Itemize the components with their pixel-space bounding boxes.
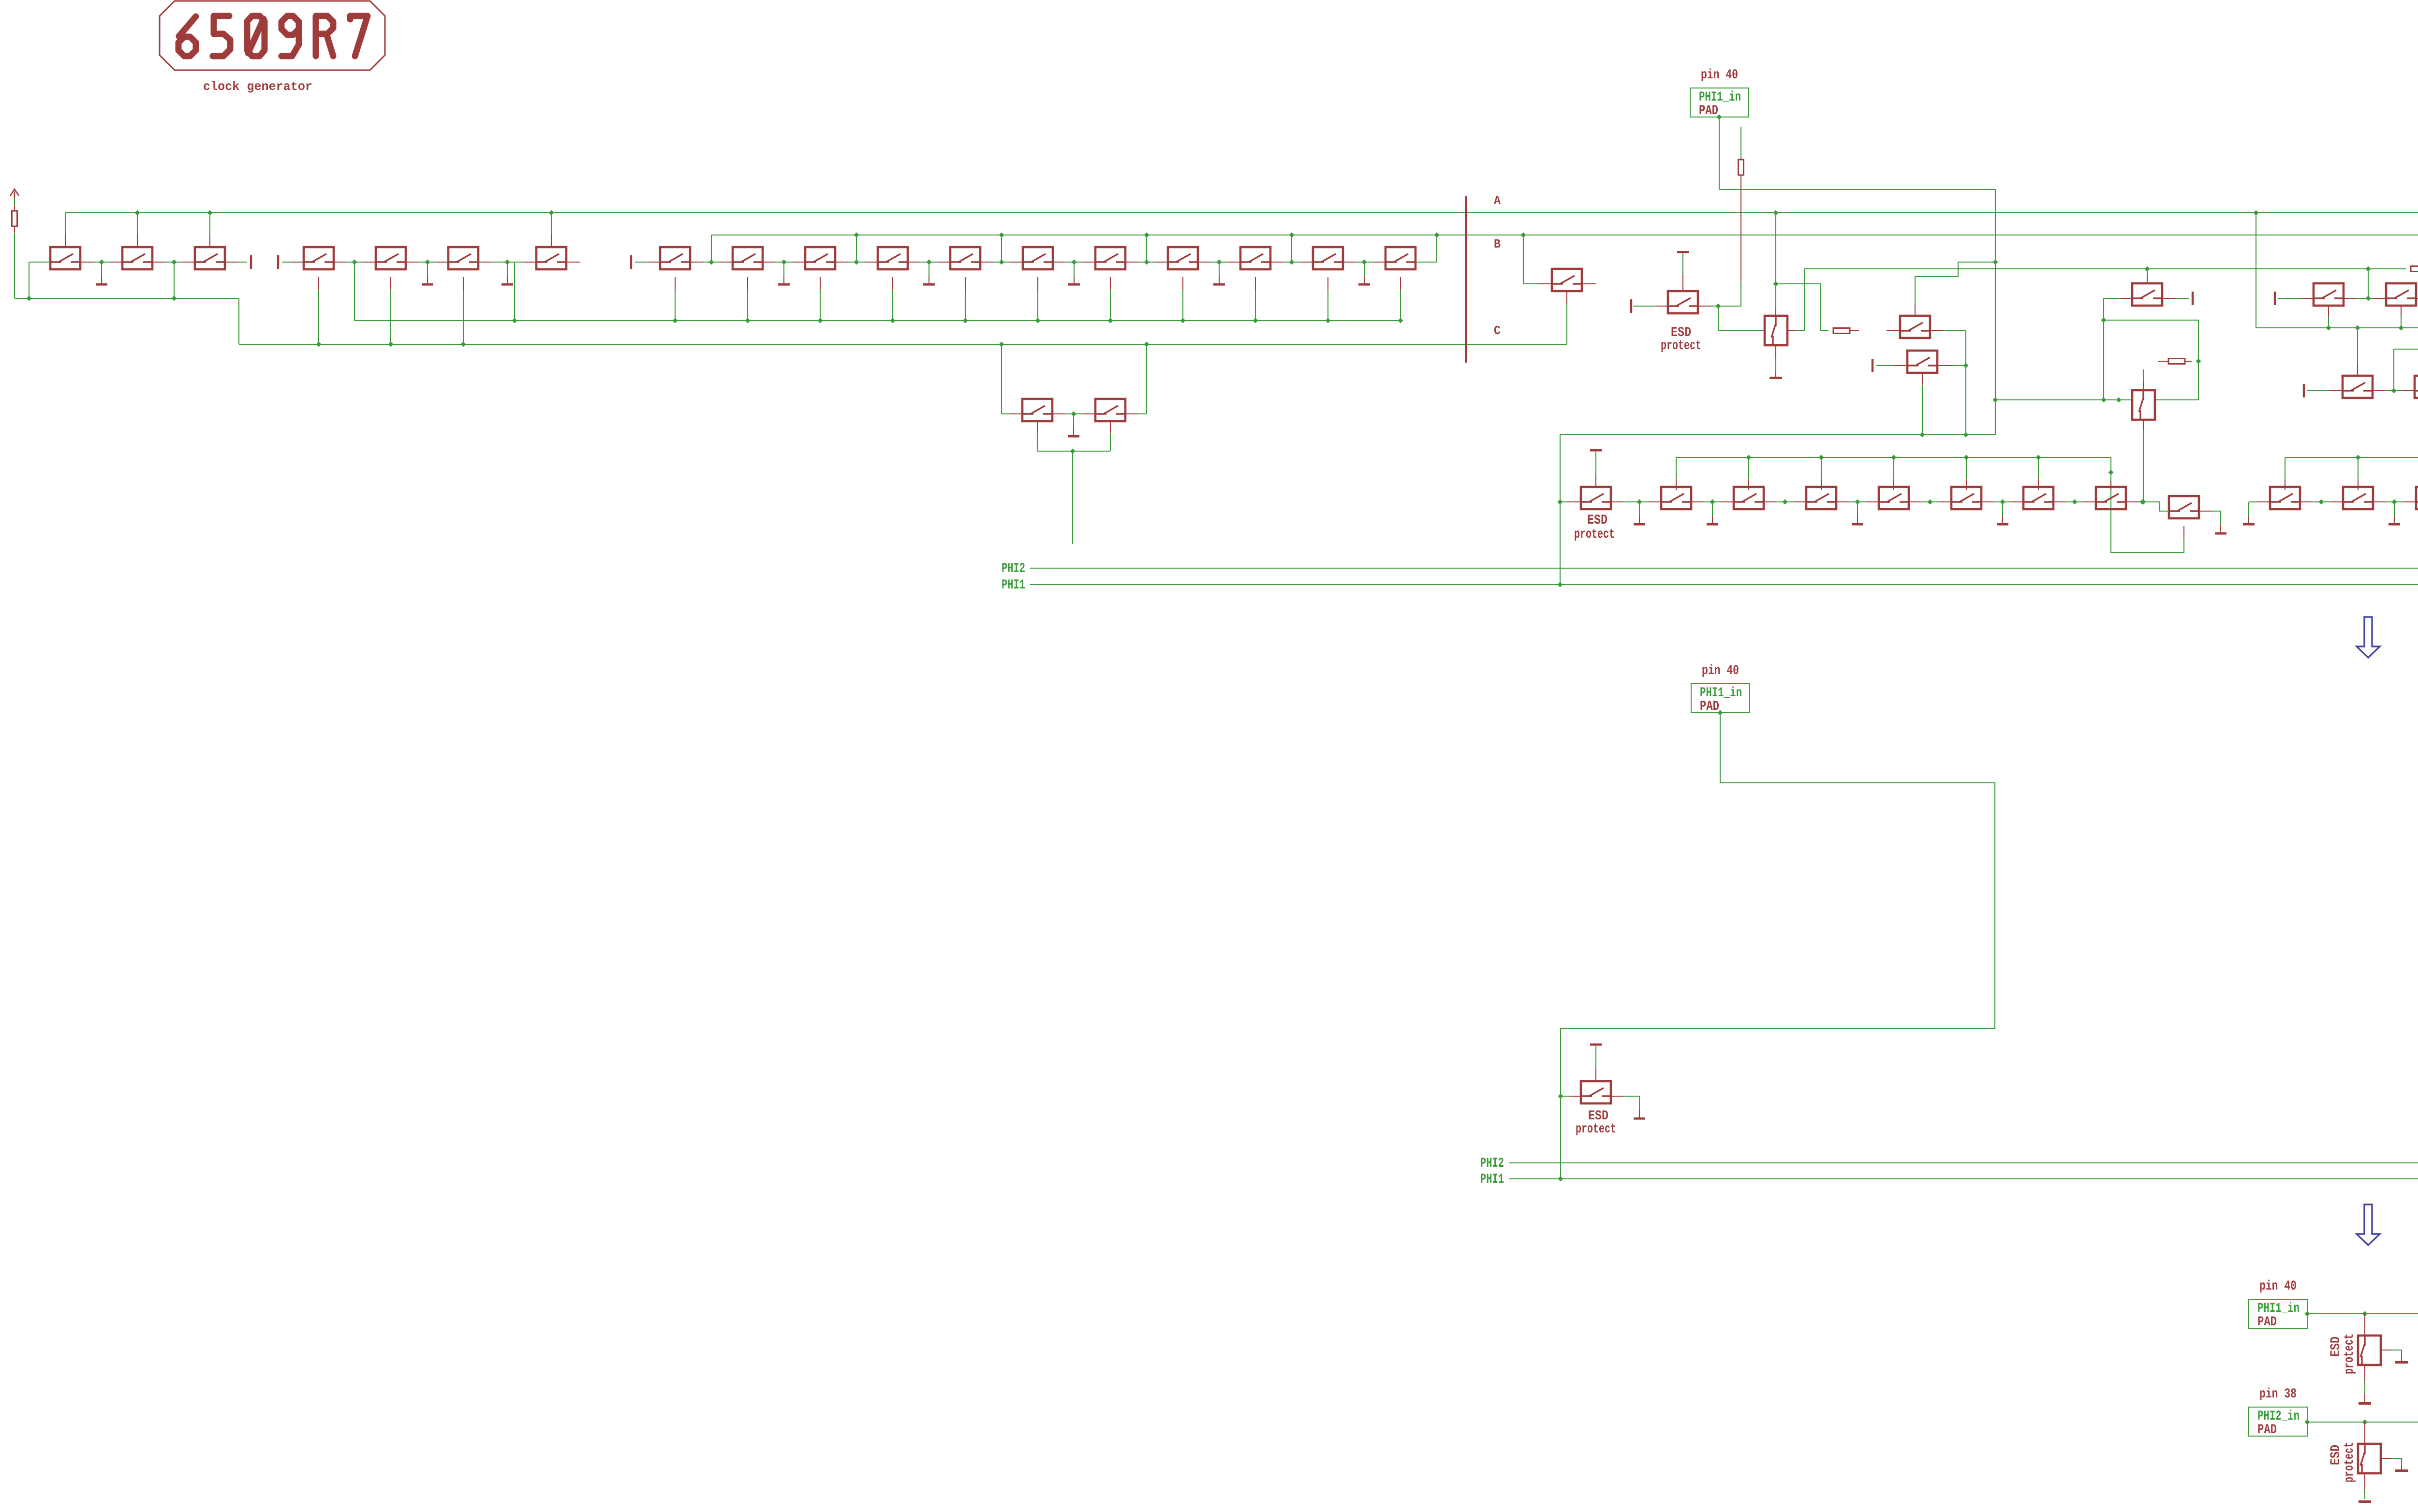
svg-text:PHI1_in: PHI1_in — [2257, 1301, 2300, 1316]
svg-text:pin 38: pin 38 — [2259, 1387, 2297, 1402]
svg-text:PAD: PAD — [2257, 1423, 2277, 1438]
svg-text:PAD: PAD — [2257, 1315, 2277, 1330]
svg-text:protect: protect — [1661, 338, 1701, 353]
svg-text:pin 40: pin 40 — [2259, 1279, 2297, 1294]
svg-text:PHI1: PHI1 — [1480, 1172, 1504, 1187]
svg-text:clock generator: clock generator — [203, 79, 312, 94]
svg-text:ESD: ESD — [2329, 1445, 2344, 1465]
svg-text:PHI1: PHI1 — [1002, 578, 1025, 593]
svg-text:protect: protect — [2342, 1442, 2357, 1483]
svg-text:A: A — [1494, 193, 1501, 208]
svg-text:ESD: ESD — [1587, 513, 1607, 528]
svg-text:PAD: PAD — [1699, 103, 1718, 118]
svg-text:B: B — [1494, 237, 1501, 251]
svg-text:PHI1_in: PHI1_in — [1699, 90, 1741, 105]
svg-text:pin 40: pin 40 — [1701, 68, 1738, 83]
svg-text:PAD: PAD — [1700, 699, 1719, 714]
svg-text:PHI2_in: PHI2_in — [2257, 1409, 2300, 1424]
svg-text:protect: protect — [1576, 1122, 1616, 1137]
svg-text:pin 40: pin 40 — [1702, 663, 1739, 678]
svg-text:PHI2: PHI2 — [1480, 1156, 1504, 1171]
svg-text:PHI2: PHI2 — [1002, 561, 1025, 576]
svg-text:protect: protect — [1574, 527, 1615, 542]
svg-text:C: C — [1494, 323, 1501, 338]
svg-text:protect: protect — [2342, 1334, 2357, 1374]
svg-text:PHI1_in: PHI1_in — [1700, 686, 1742, 701]
svg-text:ESD: ESD — [2329, 1336, 2344, 1357]
